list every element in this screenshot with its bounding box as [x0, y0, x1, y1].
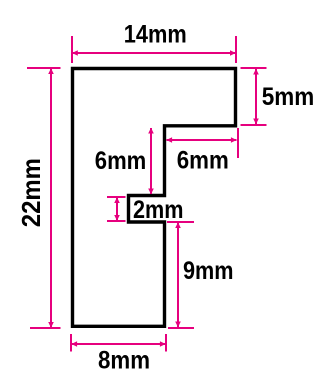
- extension line right: [237, 128, 239, 158]
- dimension 22mm (left height): [27, 68, 61, 328]
- dimension line: [150, 128, 152, 194]
- arrow right: [231, 137, 237, 143]
- dimension line: [50, 68, 52, 328]
- arrow left: [71, 341, 77, 347]
- shape outline (F-profile): [73, 69, 236, 327]
- arrow right: [160, 341, 166, 347]
- extension line bottom: [107, 220, 126, 222]
- svg-text:8mm: 8mm: [98, 348, 150, 375]
- arrow top: [48, 68, 54, 74]
- extension line top: [27, 67, 61, 69]
- svg-text:9mm: 9mm: [183, 258, 234, 285]
- dimension line: [72, 343, 166, 345]
- arrow bottom: [114, 215, 120, 221]
- svg-text:2mm: 2mm: [133, 197, 184, 224]
- extension line left: [70, 334, 72, 352]
- arrow left: [166, 137, 172, 143]
- extension line right: [235, 36, 237, 63]
- svg-text:5mm: 5mm: [262, 84, 315, 111]
- dimension 2mm (notch height): [107, 197, 126, 221]
- arrow top: [253, 69, 259, 75]
- arrow bottom: [148, 189, 154, 195]
- extension line bottom: [30, 327, 61, 329]
- arrow top: [148, 128, 154, 134]
- extension line top: [241, 67, 267, 69]
- dimension line: [73, 52, 236, 54]
- svg-text:6mm: 6mm: [177, 148, 229, 175]
- arrow bottom: [175, 322, 181, 328]
- arrow top: [175, 222, 181, 228]
- arrow bottom: [48, 322, 54, 328]
- dimension line: [116, 197, 118, 221]
- dimension line: [167, 139, 237, 141]
- dimension 6mm (horizontal, top bar right part): [166, 128, 238, 158]
- dimension 6mm (vertical, inner edge): [148, 128, 154, 195]
- extension line bottom: [168, 327, 194, 329]
- svg-text:6mm: 6mm: [95, 148, 147, 175]
- extension line left: [71, 36, 73, 63]
- dimension line: [177, 222, 179, 328]
- extension line bottom: [241, 124, 267, 126]
- arrow top: [114, 197, 120, 203]
- svg-text:22mm: 22mm: [16, 158, 46, 227]
- extension line top: [107, 196, 126, 198]
- dimension 5mm (right, top bar thickness): [241, 68, 267, 125]
- extension line top: [167, 221, 194, 223]
- arrow bottom: [253, 119, 259, 125]
- arrow right: [230, 50, 236, 56]
- svg-text:14mm: 14mm: [124, 22, 187, 49]
- dimension line: [255, 69, 257, 125]
- dimension 8mm (bottom width): [71, 334, 166, 352]
- arrow left: [72, 50, 78, 56]
- dimension 14mm (top width): [72, 36, 236, 63]
- extension line right: [165, 334, 167, 352]
- dimension 9mm (lower stem height): [167, 222, 194, 328]
